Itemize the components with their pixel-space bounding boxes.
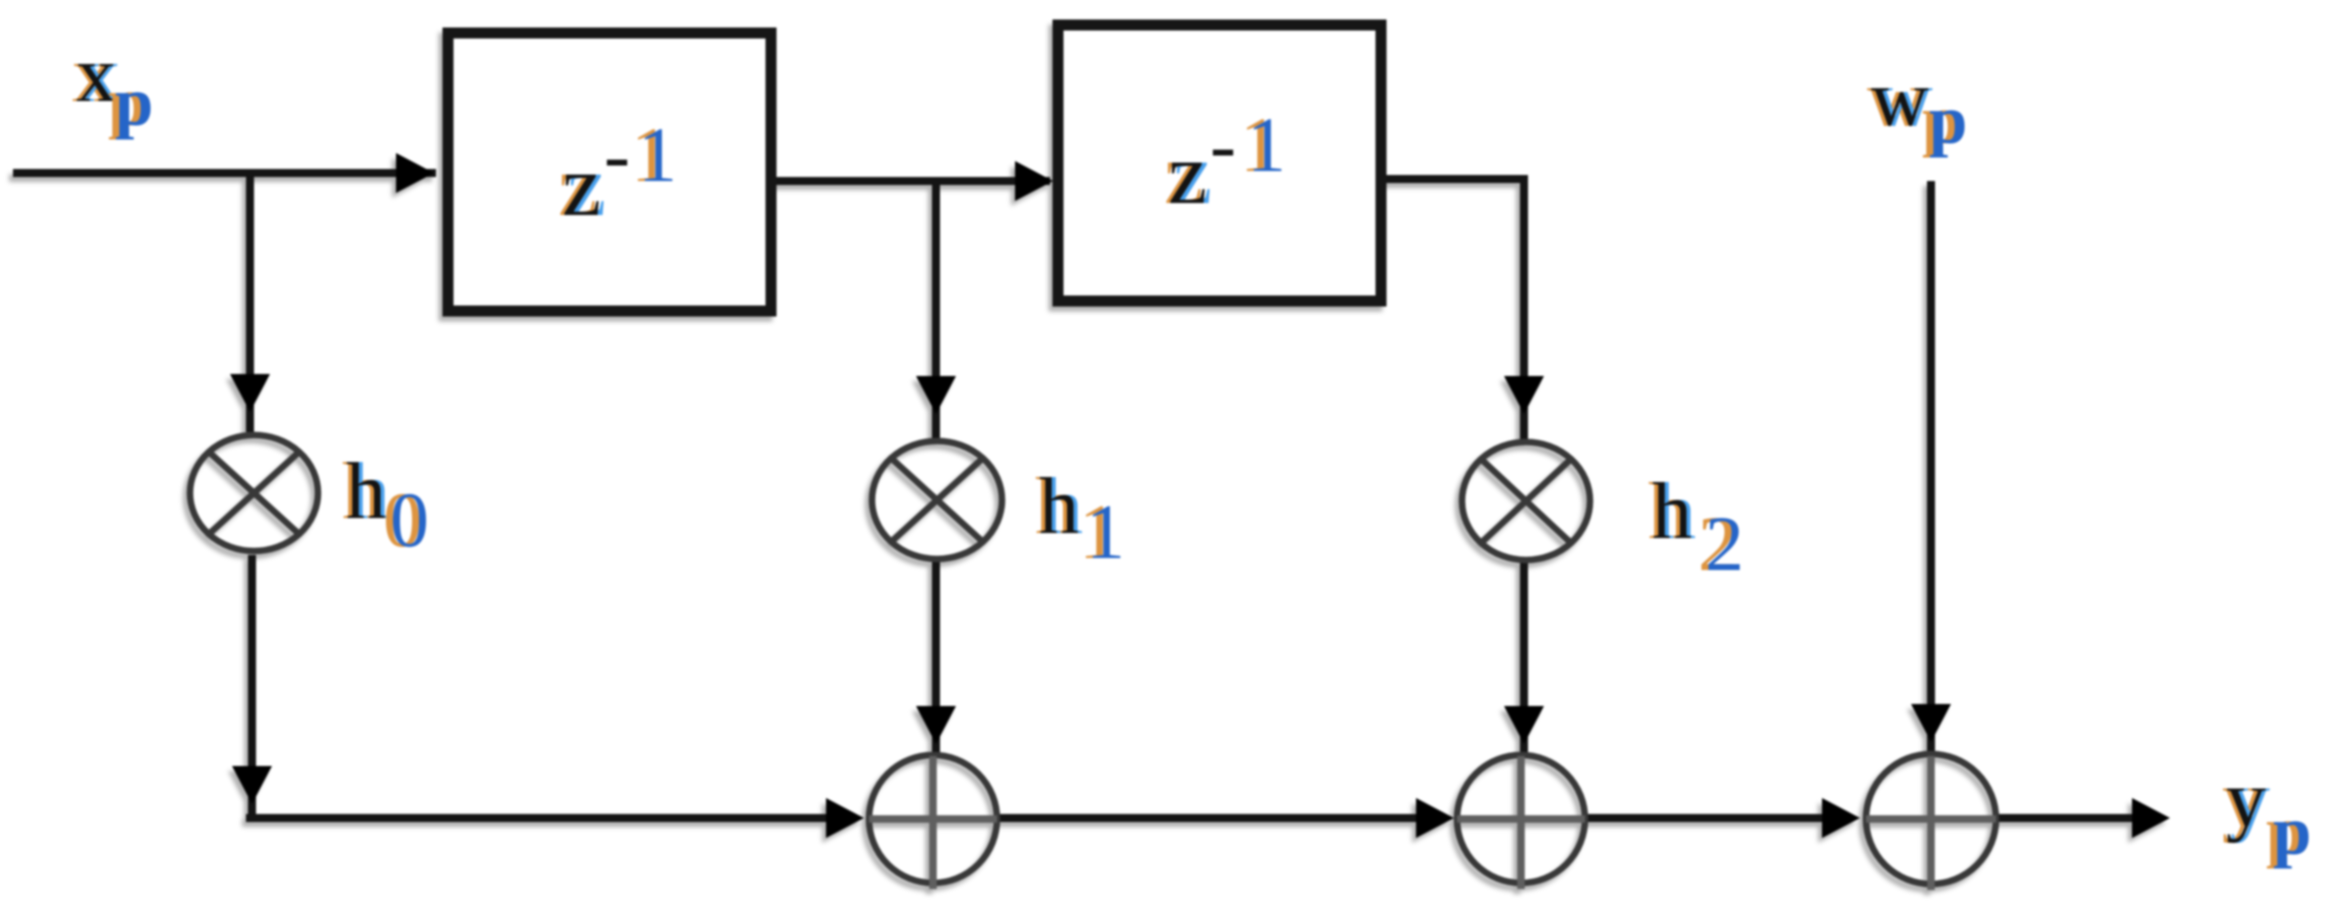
svg-text:w: w — [1871, 55, 1929, 143]
svg-text:h: h — [346, 448, 386, 536]
label h0 — [342, 448, 429, 563]
label h2 — [1648, 468, 1744, 587]
svg-text:2: 2 — [1705, 500, 1744, 587]
arrow: into adder2 from h2 — [1504, 706, 1544, 744]
wire: box2 output corner down to h2 — [1381, 179, 1524, 439]
adder3 circle with plus — [1866, 754, 1996, 890]
multiplier h2 circle — [1462, 442, 1590, 560]
wire: h2 to adder2 — [1520, 563, 1528, 756]
wire: bottom corner to adder1 — [246, 814, 830, 822]
svg-text:p: p — [115, 64, 153, 140]
svg-text:z: z — [562, 138, 601, 235]
wire: h1 to adder1 — [932, 562, 940, 756]
arrow: down into h0 — [230, 374, 270, 412]
label w_p — [1867, 55, 1967, 158]
arrow: into adder1 from left — [826, 798, 864, 838]
arrow: into adder1 from h1 — [916, 706, 956, 744]
arrow: into adder2 from left — [1416, 798, 1454, 838]
multiplier h0 circle — [190, 435, 318, 551]
label y_p — [2222, 756, 2311, 869]
adder1 circle with plus — [869, 755, 997, 889]
svg-text:p: p — [1929, 82, 1967, 158]
svg-text:1: 1 — [638, 111, 677, 198]
arrow: into delay box Z2 — [1015, 161, 1053, 201]
arrow: down before bottom-left corner — [232, 766, 272, 804]
wire: input from x_p — [13, 169, 436, 177]
label z^-1 in box2 — [1164, 101, 1286, 223]
wire: w_p down to adder3 — [1927, 181, 1935, 755]
svg-text:h: h — [1652, 468, 1692, 556]
arrow: down into h1 — [916, 376, 956, 414]
svg-text:p: p — [2273, 793, 2311, 869]
wire: adder1 to adder2 — [997, 814, 1416, 822]
svg-text:-: - — [604, 111, 630, 198]
adder2 circle with plus — [1457, 755, 1585, 889]
label z^-1 in box1 — [558, 111, 677, 235]
arrow: output to y_p — [2132, 798, 2170, 838]
multiplier h1 circle — [872, 441, 1002, 559]
arrow: into delay box Z1 — [396, 153, 434, 193]
svg-text:y: y — [2226, 756, 2266, 844]
arrow: into adder3 from left — [1822, 798, 1860, 838]
svg-text:0: 0 — [390, 476, 429, 563]
wire: branch down to h1 — [932, 177, 940, 438]
wire: branch down to h0 — [246, 169, 254, 432]
svg-text:h: h — [1039, 463, 1079, 551]
arrow: into adder3 from w_p — [1911, 704, 1951, 742]
arrow: down into h2 — [1504, 376, 1544, 414]
wire: box1 to box2 — [771, 177, 1050, 185]
delay box Z1 — [448, 33, 771, 311]
label x_p — [72, 31, 153, 140]
svg-text:z: z — [1168, 126, 1207, 223]
wire: h0 down to bottom corner then right — [250, 555, 252, 816]
svg-text:-: - — [1210, 101, 1236, 188]
svg-text:1: 1 — [1086, 488, 1125, 575]
svg-text:1: 1 — [1247, 101, 1286, 188]
label h1 — [1035, 463, 1125, 575]
wire: adder3 to output y_p — [1996, 814, 2132, 822]
delay box Z2 — [1058, 25, 1381, 301]
wire: adder2 to adder3 — [1585, 814, 1822, 822]
